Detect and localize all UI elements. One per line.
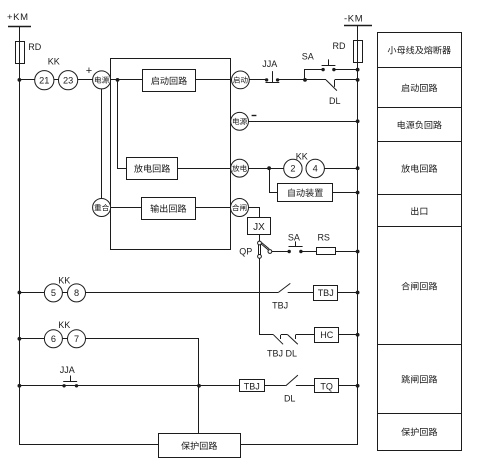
- wire TBJ row left: [19, 292, 278, 294]
- label - polarity: [252, 115, 257, 117]
- wire KK4 to right bus: [324, 168, 357, 170]
- box 自动装置: [278, 184, 333, 202]
- box 保护回路: [159, 434, 241, 458]
- junction left bus / start row: [18, 78, 22, 82]
- legend row 小母线及熔断器: [388, 46, 451, 54]
- busbar -KM tick: [344, 25, 372, 27]
- indicator 合闸: [231, 199, 249, 217]
- svg-text:SA: SA: [302, 52, 314, 62]
- contact KK 2: [284, 159, 302, 177]
- indicator 电源 (-): [231, 112, 249, 130]
- junction TQ right bus: [356, 384, 360, 388]
- svg-text:5: 5: [51, 288, 56, 298]
- wire HC coil to right bus: [339, 334, 358, 336]
- contact KK 23: [59, 71, 78, 90]
- svg-text:SA: SA: [288, 233, 300, 243]
- svg-text:6: 6: [51, 334, 56, 344]
- svg-text:RS: RS: [317, 232, 330, 242]
- contact SA (lower): [288, 233, 303, 254]
- contact JJA (top): [262, 59, 279, 83]
- junction left bus KK67 row: [18, 337, 22, 341]
- svg-text:TBJ: TBJ: [272, 301, 288, 311]
- wire KK67 row: [20, 339, 199, 435]
- junction negative right bus: [356, 119, 360, 123]
- junction left bus TBJ row: [18, 291, 22, 295]
- svg-text:KK: KK: [58, 320, 70, 330]
- svg-text:+KM: +KM: [7, 12, 29, 23]
- legend row 保护回路: [377, 414, 461, 437]
- svg-text:7: 7: [74, 334, 79, 344]
- wire branch up to SA: [305, 70, 324, 80]
- wire JX to QP: [259, 235, 261, 241]
- link QP connection strap: [239, 241, 272, 258]
- legend row 跳闸回路: [377, 345, 461, 384]
- wire SA to RS: [301, 251, 317, 253]
- box 启动回路: [143, 70, 196, 92]
- indicator 重合: [93, 199, 111, 217]
- wire 启动 to JJA: [249, 79, 266, 81]
- junction discharge branch: [267, 166, 271, 170]
- wire 启动回路 to 启动: [195, 79, 231, 81]
- svg-text:DL: DL: [284, 393, 296, 403]
- svg-text:KK: KK: [58, 276, 70, 286]
- frame device outline box: [111, 59, 231, 250]
- junction HC right bus: [356, 333, 360, 337]
- wire SA to right bus: [334, 69, 358, 71]
- junction 自动装置 right bus: [356, 191, 360, 195]
- svg-text:21: 21: [39, 75, 49, 85]
- wire blade to TBJ coil: [288, 292, 314, 294]
- fuse RD (left): [16, 41, 42, 63]
- junction TBJ right bus: [356, 291, 360, 295]
- wire 合闸 to JX: [249, 208, 260, 218]
- wire start row left: [19, 79, 142, 81]
- wire DL to HC coil: [296, 334, 315, 336]
- wire JJA to junction: [278, 79, 305, 81]
- wire 自动装置 to right bus: [333, 192, 358, 194]
- indicator 启动: [232, 71, 250, 89]
- contact DL (top, NC): [326, 80, 341, 106]
- junction inner branch: [116, 78, 120, 82]
- legend row 电源负回路: [377, 108, 461, 130]
- legend row 出口: [377, 195, 461, 216]
- wire 放电回路 to 放电: [177, 168, 230, 170]
- wire TBJ box to DL: [264, 385, 286, 387]
- wire JJA row left: [19, 385, 239, 387]
- junction DL right bus: [356, 78, 360, 82]
- junction SA/DL branch: [303, 78, 307, 82]
- svg-text:RD: RD: [28, 42, 41, 52]
- wire between NC contacts: [281, 334, 288, 336]
- wire inner branch down to discharge: [118, 80, 127, 169]
- contact KK 8: [68, 284, 86, 302]
- contact KK 21: [35, 71, 54, 90]
- wire 电源 to 重合: [101, 89, 103, 199]
- indicator 电源 (+): [93, 71, 111, 89]
- wire TBJ coil to right bus: [338, 292, 358, 294]
- wire branch to 自动装置: [270, 169, 278, 193]
- junction left bus JJA row: [18, 384, 22, 388]
- junction JJA row / protect vertical: [197, 384, 201, 388]
- relay TBJ contact coil box (trip row): [240, 380, 265, 392]
- contact SA (top): [302, 52, 336, 72]
- busbar +KM tick: [8, 26, 31, 28]
- wire junction to DL: [305, 79, 326, 81]
- wire QP to SA: [272, 251, 289, 253]
- wire 输出回路 to 合闸: [195, 207, 230, 209]
- contact TBJ (NO blade): [272, 283, 290, 310]
- contact TBJ (NC): [274, 335, 284, 345]
- svg-text:JX: JX: [253, 222, 265, 233]
- box 输出回路: [142, 198, 196, 220]
- svg-text:KK: KK: [48, 56, 60, 66]
- contact DL (trip row, NO blade): [284, 375, 298, 403]
- contact KK 7: [68, 330, 86, 348]
- svg-text:TBJ: TBJ: [244, 381, 260, 391]
- legend row 合闸回路: [377, 227, 461, 291]
- svg-text:TBJ DL: TBJ DL: [267, 349, 297, 359]
- wire DL to right bus: [335, 79, 358, 81]
- contact JJA (bottom): [60, 365, 79, 388]
- svg-text:-KM: -KM: [344, 14, 363, 25]
- wire bottom row: [20, 444, 159, 446]
- junction discharge right bus: [356, 166, 360, 170]
- svg-text:4: 4: [313, 164, 318, 174]
- wire 重合 to 输出回路: [111, 207, 142, 209]
- wire TQ coil to right bus: [338, 385, 357, 387]
- wire negative row: [249, 121, 358, 123]
- junction SA right bus: [356, 68, 360, 72]
- wire protect box to right bus: [240, 444, 357, 446]
- relay TBJ coil: [314, 286, 338, 301]
- fuse RD (right): [333, 40, 363, 63]
- wire right bus vertical: [357, 26, 359, 445]
- indicator 放电: [231, 159, 249, 177]
- contact KK 4: [306, 159, 324, 177]
- svg-text:QP: QP: [239, 246, 252, 256]
- relay HC coil: [315, 328, 339, 343]
- legend row 启动回路: [377, 68, 461, 93]
- svg-text:DL: DL: [329, 96, 341, 106]
- relay JX: [248, 218, 271, 235]
- resistor RS: [317, 232, 336, 254]
- svg-text:JJA: JJA: [60, 365, 75, 375]
- svg-text:KK: KK: [296, 151, 308, 161]
- contact KK 5: [44, 284, 62, 302]
- contact DL (NC, HC row): [267, 335, 298, 359]
- legend row 放电回路: [377, 142, 461, 173]
- svg-text:8: 8: [74, 288, 79, 298]
- wire RS to right bus: [335, 251, 357, 253]
- wire DL to TQ coil: [296, 385, 315, 387]
- contact KK 6: [44, 330, 62, 348]
- relay TQ coil: [315, 379, 339, 393]
- box 放电回路: [127, 158, 178, 180]
- svg-text:TQ: TQ: [320, 381, 333, 391]
- svg-text:2: 2: [290, 164, 295, 174]
- svg-text:TBJ: TBJ: [318, 288, 334, 298]
- svg-text:JJA: JJA: [262, 59, 277, 69]
- svg-text:+: +: [86, 65, 92, 77]
- svg-text:HC: HC: [320, 330, 333, 340]
- svg-text:RD: RD: [333, 41, 346, 51]
- legend table frame: [378, 33, 462, 451]
- wire 放电 to KK contacts: [249, 168, 284, 170]
- wire QP down to HC row: [260, 258, 274, 334]
- junction RS right bus: [356, 250, 360, 254]
- wire left bus vertical: [19, 27, 21, 446]
- svg-text:23: 23: [63, 75, 73, 85]
